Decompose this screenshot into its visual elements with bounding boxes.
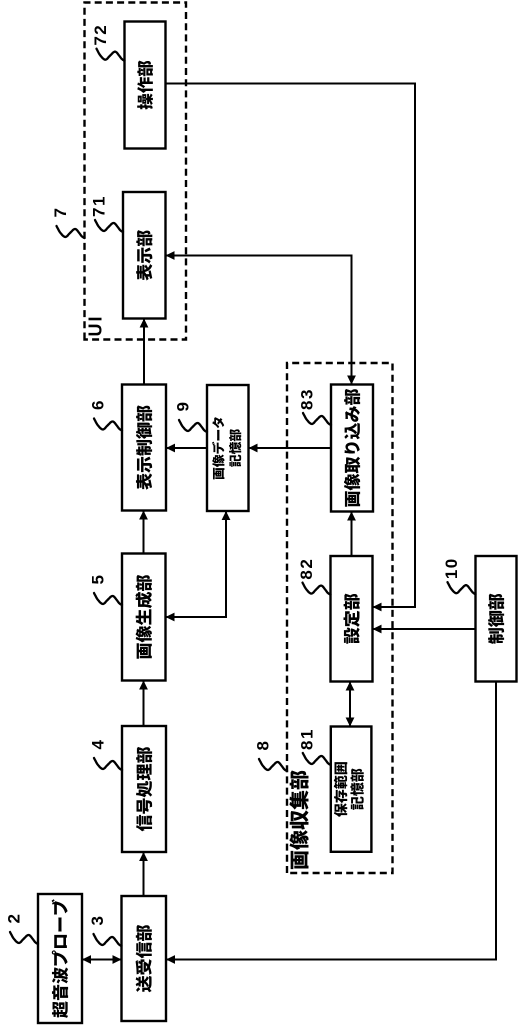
box 72 操作部 (operation unit) [125,22,166,149]
box 82 設定部 (setting unit) [331,556,373,682]
ref 8 squiggle leader [259,759,287,771]
wire image-capture to image-data-storage arrow [249,447,332,449]
svg-text:9: 9 [174,401,193,412]
wire image-generation to display-control arrow [143,511,145,554]
svg-text:6: 6 [89,399,108,410]
box 83 画像取り込み部 (image capture unit) [331,385,373,512]
wire probe-tx bidirectional arrow [82,959,122,961]
box 3 送受信部 (transmit/receive unit) [122,896,167,1021]
svg-text:4: 4 [89,739,108,750]
ref 6 squiggle leader [94,419,122,431]
ref 3 squiggle leader [94,934,122,946]
wire signal-processing to image-generation arrow [143,681,145,727]
svg-text:72: 72 [91,24,110,46]
ref 71 squiggle leader [95,220,123,232]
arrowheads [82,251,382,964]
box 10 制御部 (control unit) [476,556,517,682]
wire control to tx (long L) arrow [166,682,496,960]
ref 2 squiggle leader [10,932,38,944]
ref 82 squiggle leader [303,583,331,595]
wire tx to signal-processing arrow [143,852,145,896]
wire image-data-storage to display-control arrow [166,447,207,449]
svg-text:7: 7 [51,207,70,218]
wire image-generation / image-data-storage bidirectional L [166,511,227,617]
box 71 表示部 (display unit) [123,192,166,319]
wire display-control to display arrow [143,319,145,385]
svg-text:8: 8 [254,740,273,751]
ref 9 squiggle leader [179,420,207,432]
ref 4 squiggle leader [94,758,122,770]
wire control to setting arrow [373,628,476,630]
box 2 超音波プローブ (ultrasound probe) [38,894,82,1023]
dashed box image-acquisition group 8 [287,363,393,873]
wire setting to image-capture arrow [351,512,353,557]
wire operation to setting (long L) arrow [166,84,416,608]
svg-text:81: 81 [297,728,316,750]
ref 10 squiggle leader [448,582,476,594]
label 画像収集部 (image acquisition unit) [289,770,308,869]
svg-text:10: 10 [442,557,461,579]
ref 81 squiggle leader [303,753,331,765]
svg-text:UI: UI [86,315,106,337]
svg-text:3: 3 [88,915,107,926]
ref 7 squiggle leader [57,226,85,238]
svg-text:83: 83 [298,388,317,410]
wire display / image-capture bidirectional L [166,256,352,385]
svg-text:71: 71 [90,195,109,217]
ref 72 squiggle leader [97,49,125,61]
svg-text:2: 2 [5,913,24,924]
svg-text:5: 5 [89,574,108,585]
ref 83 squiggle leader [303,413,331,425]
box 6 表示制御部 (display control unit) [122,385,166,511]
box 81 保存範囲記憶部 (save range storage) [331,727,372,852]
ref 5 squiggle leader [94,593,122,605]
box 5 画像生成部 (image generation unit) [122,554,166,681]
wire setting / save-range-storage bidirectional arrow [349,682,351,727]
box 4 信号処理部 (signal processing unit) [122,726,166,852]
svg-text:82: 82 [297,558,316,580]
dashed box UI group 7 [85,3,187,340]
box 9 画像データ記憶部 (image data storage) [207,385,249,511]
